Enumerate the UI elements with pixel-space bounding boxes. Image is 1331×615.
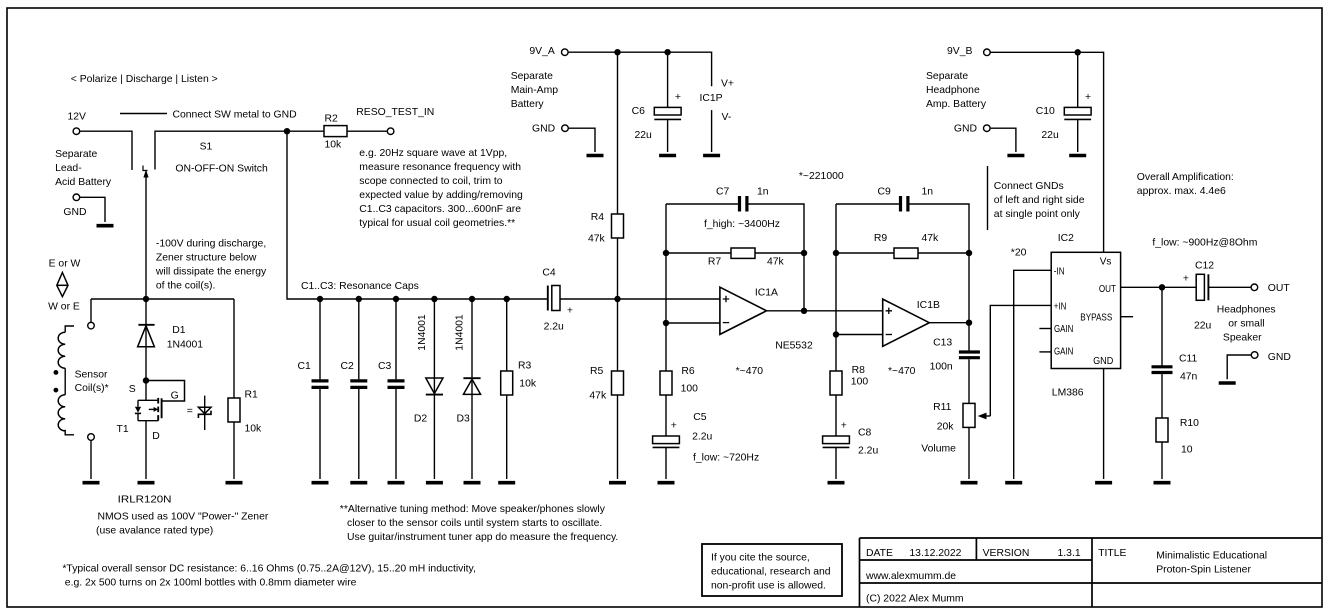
svg-text:GAIN: GAIN	[1054, 347, 1073, 358]
resistor R8	[830, 365, 868, 395]
svg-text:*~470: *~470	[888, 366, 916, 377]
svg-text:C5: C5	[693, 412, 707, 423]
ground (C6)	[659, 154, 676, 158]
zener diode equivalent symbol	[198, 396, 211, 430]
wire 9V_B rail to IC2 Vs	[990, 52, 1104, 252]
node junction R4 rail	[614, 49, 620, 55]
wire 12V to S1 left contact	[80, 131, 132, 170]
ground (T1 drain)	[138, 481, 155, 485]
wire R2 to RESO_TEST_IN	[347, 130, 387, 132]
ground (C5)	[658, 481, 675, 485]
svg-text:S1: S1	[200, 142, 213, 153]
svg-text:Minimalistic Educational: Minimalistic Educational	[1156, 550, 1267, 561]
note NMOS zener	[96, 512, 269, 537]
svg-text:f_low: ~900Hz@8Ohm: f_low: ~900Hz@8Ohm	[1152, 237, 1257, 248]
svg-text:2.2u: 2.2u	[544, 321, 564, 332]
svg-text:1N4001: 1N4001	[454, 314, 465, 351]
node junction at R2	[284, 128, 290, 134]
svg-text:Use guitar/instrument tuner ap: Use guitar/instrument tuner app do measu…	[347, 532, 618, 543]
svg-text:C6: C6	[632, 106, 646, 117]
wire GND to ground (9V_B)	[990, 128, 1016, 152]
wire left feedback rail IC1B	[835, 204, 837, 335]
terminal 9V_B	[947, 46, 990, 57]
svg-text:IC2: IC2	[1058, 233, 1074, 244]
resistor R10	[1156, 418, 1199, 456]
svg-text:+: +	[1085, 92, 1091, 103]
resistor R7	[708, 248, 785, 267]
svg-text:Overall Amplification:: Overall Amplification:	[1137, 172, 1234, 183]
note -100V discharge	[155, 238, 267, 291]
ground (IC1P V-)	[703, 154, 720, 158]
svg-text:=: =	[187, 406, 193, 417]
terminal 9V_A	[529, 46, 568, 57]
svg-text:R5: R5	[590, 366, 604, 377]
svg-text:+: +	[841, 421, 847, 432]
connector coil top	[88, 322, 95, 329]
node junction IC1B inverting	[833, 331, 839, 337]
svg-text:*~470: *~470	[736, 366, 764, 377]
svg-text:NE5532: NE5532	[775, 341, 813, 352]
label Separate Main-Amp Battery	[511, 71, 559, 110]
pin stub GAIN 1	[1039, 328, 1051, 330]
svg-text:47k: 47k	[589, 390, 607, 401]
svg-text:educational, research and: educational, research and	[711, 567, 831, 578]
svg-text:of left and right side: of left and right side	[994, 195, 1085, 206]
wire IC2 +IN to R11 wiper	[990, 305, 1051, 416]
svg-text:Acid Battery: Acid Battery	[55, 177, 112, 188]
svg-text:Headphone: Headphone	[926, 85, 980, 96]
node junction C2	[356, 296, 362, 302]
svg-text:D2: D2	[414, 414, 428, 425]
svg-text:*~221000: *~221000	[799, 171, 844, 182]
svg-text:IC1P: IC1P	[700, 93, 723, 104]
capacitor C12	[1183, 260, 1214, 331]
capacitor C5	[653, 412, 713, 479]
wire S1 right contact to R2 junction	[155, 131, 324, 169]
wire GND terminal to ground (output)	[1227, 355, 1251, 379]
capacitor C8	[823, 421, 879, 479]
node junction IC1A output	[801, 308, 807, 314]
node junction R9 right	[966, 250, 972, 256]
svg-text:Speaker: Speaker	[1223, 332, 1262, 343]
svg-text:S: S	[129, 384, 136, 395]
wire R6 rail	[665, 323, 667, 371]
node junction R5	[614, 296, 620, 302]
svg-text:Lead-: Lead-	[55, 163, 82, 174]
svg-text:will dissipate the energy: will dissipate the energy	[155, 266, 267, 277]
svg-text:BYPASS: BYPASS	[1080, 313, 1112, 324]
resistor R5	[589, 299, 623, 479]
resistor R6	[660, 366, 698, 395]
wire R10 to ground	[1161, 442, 1163, 479]
svg-text:f_high: ~3400Hz: f_high: ~3400Hz	[704, 219, 780, 230]
terminal OUT	[1251, 283, 1290, 294]
svg-text:100: 100	[681, 384, 699, 395]
capacitor C2	[341, 299, 368, 479]
svg-text:C12: C12	[1195, 260, 1214, 271]
op-amp IC1B	[883, 299, 940, 346]
svg-text:10k: 10k	[325, 139, 343, 150]
svg-text:non-profit use is allowed.: non-profit use is allowed.	[711, 581, 826, 592]
note connect GNDs	[988, 166, 1085, 230]
svg-text:-100V during discharge,: -100V during discharge,	[156, 238, 266, 249]
wire C9 feedback top left	[836, 203, 899, 205]
inductor Sensor Coil(s)	[54, 326, 109, 435]
svg-text:GND: GND	[63, 207, 86, 218]
svg-text:D: D	[152, 431, 160, 442]
svg-text:Volume: Volume	[921, 443, 956, 454]
ground (C8)	[828, 481, 845, 485]
svg-text:www.alexmumm.de: www.alexmumm.de	[865, 571, 956, 582]
wire node to coil top connector	[90, 299, 92, 322]
svg-text:RESO_TEST_IN: RESO_TEST_IN	[356, 107, 434, 118]
svg-text:G: G	[171, 390, 179, 401]
svg-text:If you cite the source,: If you cite the source,	[711, 553, 810, 564]
svg-text:47k: 47k	[767, 256, 785, 267]
svg-text:C8: C8	[858, 427, 872, 438]
node junction R9 left	[833, 250, 839, 256]
note alternative tuning	[340, 504, 618, 543]
terminal GND (9V_A)	[532, 124, 568, 135]
svg-text:(C) 2022 Alex Mumm: (C) 2022 Alex Mumm	[866, 593, 964, 604]
terminal 12V	[68, 112, 87, 135]
title block title	[1098, 548, 1267, 575]
svg-text:of the coil(s).: of the coil(s).	[156, 280, 215, 291]
svg-text:OUT: OUT	[1268, 283, 1291, 294]
wire R7 row	[666, 252, 804, 254]
svg-text:Connect SW metal to GND: Connect SW metal to GND	[173, 109, 297, 120]
svg-text:W or E: W or E	[48, 301, 80, 312]
terminal GND (output)	[1251, 352, 1291, 363]
wire coil bottom to ground	[90, 440, 92, 479]
svg-text:-IN: -IN	[1054, 266, 1065, 277]
wire IC2 -IN to ground	[1014, 270, 1051, 479]
capacitor C13	[930, 337, 980, 403]
svg-text:typical for usual coil geometr: typical for usual coil geometries.**	[359, 218, 515, 229]
label Separate Headphone Amp Battery	[926, 71, 987, 110]
svg-text:1n: 1n	[757, 187, 769, 198]
svg-text:OUT: OUT	[1099, 284, 1117, 295]
svg-text:R3: R3	[518, 360, 532, 371]
node junction C11	[1159, 284, 1165, 290]
svg-text:C4: C4	[542, 268, 556, 279]
svg-text:e.g. 2x 500 turns on 2x 100ml: e.g. 2x 500 turns on 2x 100ml bottles wi…	[65, 578, 357, 589]
svg-text:+: +	[675, 92, 681, 103]
svg-text:10k: 10k	[519, 378, 537, 389]
svg-text:GAIN: GAIN	[1054, 324, 1073, 335]
svg-text:2.2u: 2.2u	[858, 445, 878, 456]
svg-text:Proton-Spin Listener: Proton-Spin Listener	[1156, 564, 1251, 575]
svg-text:GND: GND	[532, 124, 555, 135]
ground (output GND)	[1219, 381, 1236, 385]
ground (C3)	[388, 481, 405, 485]
svg-text:NMOS used as 100V "Power-" Zen: NMOS used as 100V "Power-" Zener	[98, 512, 269, 523]
svg-text:1N4001: 1N4001	[417, 314, 428, 351]
svg-text:*Typical overall sensor DC res: *Typical overall sensor DC resistance: 6…	[62, 564, 475, 575]
svg-text:expected value by adding/remov: expected value by adding/removing	[359, 190, 523, 201]
wire R11 to ground	[968, 427, 970, 479]
svg-text:R9: R9	[874, 233, 888, 244]
svg-text:< Polarize | Discharge | Liste: < Polarize | Discharge | Listen >	[71, 74, 218, 85]
node junction IC1A inverting	[663, 320, 669, 326]
node junction R7 left	[663, 250, 669, 256]
node junction R3	[504, 296, 510, 302]
node junction D2	[431, 296, 437, 302]
svg-text:R2: R2	[325, 114, 339, 125]
svg-text:9V_B: 9V_B	[947, 46, 972, 57]
svg-text:R1: R1	[245, 389, 259, 400]
svg-text:IC1B: IC1B	[917, 300, 940, 311]
pin stub GAIN 2	[1039, 351, 1051, 353]
node junction C6	[664, 49, 670, 55]
svg-text:Main-Amp: Main-Amp	[511, 85, 559, 96]
svg-text:f_low: ~720Hz: f_low: ~720Hz	[693, 452, 759, 463]
wire IC1A output	[767, 310, 883, 312]
wire IC1B output	[929, 322, 969, 324]
svg-text:GND: GND	[954, 124, 977, 135]
capacitor C6	[632, 52, 682, 152]
svg-text:R7: R7	[708, 256, 722, 267]
wire inverting input IC1B	[836, 334, 883, 336]
svg-text:Sensor: Sensor	[75, 369, 108, 380]
resistor R3	[501, 299, 537, 479]
wire C11 rail	[1161, 287, 1163, 366]
svg-text:IC1A: IC1A	[755, 288, 778, 299]
svg-text:scope connected to coil, trim: scope connected to coil, trim to	[359, 176, 502, 187]
svg-text:T1: T1	[117, 424, 129, 435]
footnote sensor coil	[62, 564, 475, 589]
svg-text:47n: 47n	[1180, 371, 1198, 382]
wire IC2 OUT to C12	[1121, 286, 1197, 288]
svg-text:C1..C3: Resonance Caps: C1..C3: Resonance Caps	[301, 281, 419, 292]
wire C9 to right rail	[910, 204, 970, 323]
svg-text:approx. max. 4.4e6: approx. max. 4.4e6	[1137, 186, 1226, 197]
svg-text:closer to the sensor coils unt: closer to the sensor coils until system …	[347, 518, 602, 529]
svg-text:*20: *20	[1011, 247, 1027, 258]
svg-text:e.g. 20Hz square wave at 1Vpp,: e.g. 20Hz square wave at 1Vpp,	[359, 148, 507, 159]
ground (9V_A GND)	[587, 154, 604, 158]
svg-text:E or W: E or W	[49, 258, 81, 269]
svg-text:C7: C7	[716, 187, 730, 198]
wire R8 to C8	[835, 395, 837, 436]
diode D1	[138, 299, 204, 381]
svg-text:22u: 22u	[635, 130, 653, 141]
svg-text:R4: R4	[591, 212, 605, 223]
wire C7 to right rail	[749, 204, 805, 311]
svg-text:100n: 100n	[930, 361, 953, 372]
node junction R7 right	[801, 250, 807, 256]
svg-text:C9: C9	[878, 187, 892, 198]
svg-text:13.12.2022: 13.12.2022	[909, 548, 961, 559]
svg-text:or small: or small	[1228, 318, 1264, 329]
svg-text:C3: C3	[378, 361, 392, 372]
svg-text:TITLE: TITLE	[1098, 548, 1126, 559]
diode D3	[454, 299, 480, 479]
capacitor C11	[1152, 353, 1198, 418]
svg-text:C1..C3 capacitors. 300...600nF: C1..C3 capacitors. 300...600nF are	[359, 204, 521, 215]
wire R1 to ground	[233, 422, 235, 479]
wire R2 junction down to resonance node	[287, 131, 548, 299]
svg-text:VERSION: VERSION	[983, 548, 1030, 559]
note overall amplification	[1137, 172, 1234, 197]
ground (R5)	[609, 481, 626, 485]
wire GND terminal to ground	[80, 197, 105, 222]
wire C13 rail	[968, 323, 970, 351]
wire C4 to opamp input	[560, 298, 720, 300]
transistor T1 IRLR120N	[117, 381, 185, 480]
svg-text:C10: C10	[1036, 106, 1055, 117]
title block version	[983, 548, 1081, 559]
svg-text:12V: 12V	[68, 112, 87, 123]
pin stub BYPASS	[1121, 316, 1134, 318]
svg-text:Zener structure below: Zener structure below	[156, 252, 257, 263]
svg-text:GND: GND	[1268, 352, 1291, 363]
svg-text:R8: R8	[852, 365, 866, 376]
svg-text:D3: D3	[457, 414, 471, 425]
wire R8 rail	[835, 335, 837, 372]
ground (R10)	[1154, 481, 1171, 485]
svg-text:+: +	[567, 306, 573, 317]
ground (IC2 -IN)	[1005, 481, 1022, 485]
wire 9V_A rail	[568, 52, 712, 86]
svg-text:R6: R6	[681, 366, 695, 377]
title block date	[866, 548, 962, 559]
title block frame	[860, 538, 1323, 607]
note license box	[702, 544, 842, 596]
svg-text:20k: 20k	[937, 421, 955, 432]
switch S1	[143, 142, 268, 300]
svg-text:V-: V-	[722, 112, 732, 123]
ground (D2)	[426, 481, 443, 485]
svg-text:(use avalance rated type): (use avalance rated type)	[96, 526, 213, 537]
ground (9V_B GND)	[1007, 154, 1024, 158]
svg-text:Connect GNDs: Connect GNDs	[994, 181, 1064, 192]
label E or W orientation	[48, 258, 80, 312]
op-amp IC1A	[720, 287, 778, 334]
svg-text:22u: 22u	[1194, 321, 1212, 332]
node junction IC1B output	[966, 320, 972, 326]
ground (R11)	[961, 481, 978, 485]
svg-text:Separate: Separate	[55, 149, 97, 160]
ground (R1)	[226, 481, 243, 485]
wire node to R1	[233, 299, 235, 398]
svg-text:1N4001: 1N4001	[167, 339, 204, 350]
wire coil node	[91, 298, 234, 300]
resistor R4	[588, 212, 624, 245]
label headphones	[1217, 304, 1276, 343]
node junction C10	[1075, 49, 1081, 55]
ground (R3)	[498, 481, 515, 485]
capacitor C10	[1036, 52, 1091, 152]
node junction C3	[393, 296, 399, 302]
annotation Connect SW metal to GND	[120, 109, 297, 120]
ground (12V battery)	[97, 224, 114, 228]
svg-text:C2: C2	[341, 361, 355, 372]
capacitor C9	[878, 187, 934, 212]
wire GND to ground (9V_A)	[568, 128, 595, 152]
svg-text:R11: R11	[933, 402, 952, 413]
svg-text:22u: 22u	[1041, 130, 1059, 141]
svg-text:47k: 47k	[588, 234, 606, 245]
svg-text:IRLR120N: IRLR120N	[118, 494, 172, 505]
svg-text:Coil(s)*: Coil(s)*	[75, 383, 109, 394]
capacitor C7	[716, 187, 769, 212]
label Separate Lead-Acid Battery	[55, 149, 112, 188]
wire IC2 GND to ground	[1103, 369, 1105, 480]
svg-text:9V_A: 9V_A	[529, 46, 554, 57]
svg-text:V+: V+	[721, 79, 734, 90]
wire inverting input IC1A	[666, 322, 720, 324]
svg-text:10: 10	[1181, 445, 1193, 456]
svg-text:C11: C11	[1179, 353, 1198, 364]
ground (D3)	[464, 481, 481, 485]
svg-text:R10: R10	[1180, 418, 1199, 429]
node junction source/gate	[143, 377, 149, 383]
potentiometer R11	[921, 402, 990, 455]
svg-text:Headphones: Headphones	[1217, 304, 1276, 315]
svg-text:Separate: Separate	[511, 71, 553, 82]
svg-text:GND: GND	[1093, 356, 1113, 367]
svg-text:+: +	[1183, 274, 1189, 285]
svg-text:1n: 1n	[922, 187, 934, 198]
ground (IC2 GND)	[1095, 481, 1112, 485]
terminal GND (12V battery)	[63, 194, 86, 218]
svg-text:Vs: Vs	[1100, 256, 1112, 267]
svg-text:measure resonance frequency wi: measure resonance frequency with	[359, 162, 521, 173]
svg-text:47k: 47k	[922, 233, 940, 244]
svg-text:1.3.1: 1.3.1	[1058, 548, 1081, 559]
svg-text:+: +	[671, 421, 677, 432]
resistor R2	[324, 114, 347, 151]
svg-text:DATE: DATE	[866, 548, 893, 559]
diode D2	[414, 299, 443, 479]
note test signal	[359, 148, 523, 229]
capacitor C3	[378, 299, 405, 479]
power symbol IC1P	[700, 79, 735, 152]
capacitor C4	[542, 268, 573, 333]
wire R4 to node	[617, 238, 619, 299]
ground (C10)	[1069, 154, 1086, 158]
wire R6 to C5	[665, 395, 667, 436]
svg-text:D1: D1	[172, 325, 186, 336]
svg-text:C13: C13	[933, 337, 952, 348]
svg-text:Battery: Battery	[511, 99, 545, 110]
node junction C1	[317, 296, 323, 302]
svg-text:10k: 10k	[245, 423, 263, 434]
svg-text:+IN: +IN	[1054, 302, 1067, 313]
ground (coil)	[83, 481, 100, 485]
svg-text:100: 100	[851, 376, 869, 387]
capacitor C1	[298, 299, 329, 479]
svg-text:Separate: Separate	[926, 71, 968, 82]
IC U2 LM386	[1051, 233, 1120, 398]
ground (C1)	[312, 481, 329, 485]
terminal GND (9V_B)	[954, 124, 990, 135]
connector coil bottom	[88, 434, 95, 441]
ground (C2)	[350, 481, 367, 485]
wire C12 to OUT terminal	[1208, 286, 1251, 288]
svg-text:Amp. Battery: Amp. Battery	[926, 99, 987, 110]
svg-text:LM386: LM386	[1052, 388, 1084, 399]
resistor R9	[874, 233, 939, 258]
wire C7 feedback top left	[666, 203, 738, 205]
terminal RESO_TEST_IN	[356, 107, 434, 135]
wire left feedback rail IC1A	[665, 204, 667, 323]
svg-text:2.2u: 2.2u	[692, 432, 712, 443]
node junction D3	[469, 296, 475, 302]
wire rail to R4	[617, 52, 619, 214]
svg-text:at single point only: at single point only	[994, 209, 1081, 220]
